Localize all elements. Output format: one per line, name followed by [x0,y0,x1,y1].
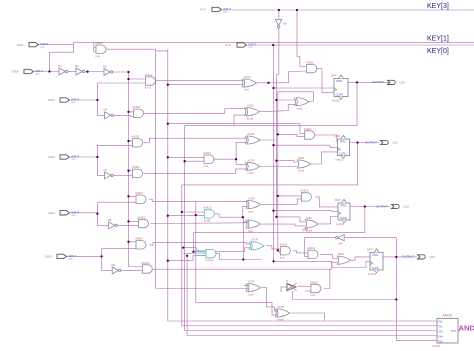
svg-text:IN4: IN4 [439,335,444,339]
wire pin4 down to inverter N7 [97,157,104,175]
wire T168 line y124 to AND G6 input a [168,124,305,134]
wire AND5 output stub [458,330,460,332]
node T168 tap GX0 [167,84,169,86]
wire G5 output to GX3 input b [144,169,249,174]
node GN1 output junction [242,216,244,218]
wire GX6 box stub [280,287,282,292]
XOR gate GXE [251,242,264,250]
flip-flop DFF2 [338,139,350,156]
svg-text:VCC: VCC [36,74,41,76]
OR gate GO4 [305,220,318,228]
node DFF3 feedback corner [192,250,194,252]
svg-text:OUTPUT: OUTPUT [402,255,414,259]
AND gate G11 [307,64,317,72]
wire clock trunk V1 from KEY[0] [273,45,275,261]
wire trunk T187 to AND5 input 4 [187,256,437,336]
svg-text:IN1: IN1 [439,320,444,324]
svg-text:IN2: IN2 [439,324,444,328]
wire G7 output to XOR GX4 input a [149,199,248,201]
svg-text:AND2: AND2 [132,135,140,139]
svg-text:IN3: IN3 [439,329,444,333]
AND gate G4 [133,139,143,147]
node GM output junction [235,158,237,160]
svg-text:SW2: SW2 [48,98,55,102]
svg-text:CLRN: CLRN [339,151,346,155]
AND gate G5 [133,169,143,177]
svg-text:PRN: PRN [336,79,342,83]
svg-text:inst2: inst2 [297,106,304,110]
AND gate G6 [305,131,315,139]
AND5 block [432,314,474,348]
svg-text:INPUT: INPUT [68,254,76,258]
svg-text:inst: inst [204,164,209,168]
wire to GXE input b [194,248,251,252]
AND gate GA3 [301,193,311,201]
svg-text:AND2: AND2 [203,151,211,155]
AND gate GA2 [308,250,318,258]
svg-text:PRN: PRN [340,139,346,143]
node V1 tap DFF2 clk [272,144,274,146]
node V3 tap GA3 [277,195,279,197]
svg-text:AND2: AND2 [279,243,287,247]
svg-text:INPUT: INPUT [71,155,79,159]
wire T184 to AND GM input b [185,160,204,162]
wire DFF4 Q to output pin [383,256,417,258]
node T128 tap G7 [127,195,129,197]
flip-flop DFF3 [338,203,350,220]
svg-text:N6: N6 [111,263,115,267]
wire GX5 output to GO4 input b [261,224,305,226]
svg-text:INPUT: INPUT [71,98,79,102]
svg-text:INPUT: INPUT [35,69,43,73]
svg-text:CLRN: CLRN [336,92,343,96]
wire into GX6 [281,286,287,288]
svg-text:XOR: XOR [244,75,251,79]
svg-text:VCC: VCC [72,159,77,161]
inverter on KEY3 trunk [275,20,281,26]
svg-text:LD1: LD1 [393,141,399,145]
wire V1 to DFF1 D input [274,87,335,89]
wire GX1 output to GO1 input b [258,104,296,111]
wire GO6 output join AND5 line [291,313,325,321]
wire G3 output to XOR GX1 input a [144,109,247,114]
svg-text:inst3: inst3 [298,169,305,173]
svg-text:AND2: AND2 [133,105,141,109]
wire V1 to DFF2 clock [274,145,338,148]
XOR gate GX3 [247,162,260,170]
svg-text:inst: inst [310,293,315,297]
XOR gate GX4 [248,201,261,209]
wire GN1 output hook [213,214,243,217]
svg-text:DFF: DFF [367,248,373,252]
node T168 tap y124 line [167,123,169,125]
wire T128 stub to G7 [129,195,137,197]
node T128 tap G4 [127,140,129,142]
OR gate GO6 [277,309,290,317]
wire V3 to AND G6 input b [278,134,305,136]
wire V2 to OR GO2 input a [276,161,297,162]
wire N7 output to G5 input b [112,174,133,176]
svg-text:inst7: inst7 [248,292,255,296]
wire V2 to OR GO4 input a [276,217,305,222]
wire pin6 up to G9 input b [102,247,137,256]
AND3 gate GN2 [206,249,216,257]
wire DFF3 feedback down [193,232,195,251]
svg-text:KY3: KY3 [200,8,206,12]
wire DFF3 Q feedback line y232 [194,207,365,233]
svg-text:OUT: OUT [451,329,457,333]
svg-text:N1: N1 [58,64,62,68]
svg-text:OUTPUT: OUTPUT [365,140,377,144]
svg-text:SW1: SW1 [17,43,24,47]
wire DFF2 Q feedback line y185 [182,143,358,185]
AND gate GM [204,155,214,163]
svg-text:IN5: IN5 [439,339,444,343]
svg-text:inst6: inst6 [247,171,254,175]
wire GN1 out down to y259 line [243,217,262,259]
svg-text:inst: inst [244,88,249,92]
svg-text:SW0: SW0 [12,70,19,74]
AND gate G3 [134,109,144,117]
wire GA2 output to GO3 input a [320,254,337,258]
XOR gate GX5 [248,220,261,228]
wire T128 stub to G9 [129,241,137,243]
node pin6 junction [100,255,102,257]
node T168 tap GN2 [167,260,169,262]
inverter N4 [105,112,111,119]
svg-text:N: N [286,279,288,283]
wire N1 to N2 [67,71,76,73]
OR gate GO5 [248,284,261,292]
node V2 tap GO1 [275,99,277,101]
wire trunk T184 to AND5 input 3 [185,126,437,331]
wire N2 to N3 [85,71,104,73]
wire N4 output to G3 input b [112,114,133,117]
wire N5 output to G8 input b [118,224,139,226]
node DFF2 Q junction [356,141,358,143]
wire KEY[3] into down inverter [278,10,280,20]
node pin5 junction [96,212,98,214]
svg-text:inst15: inst15 [432,344,440,348]
wire GO3 output to DFF4 D [350,257,370,260]
svg-text:inst13: inst13 [336,222,344,226]
node KEY3 branch junction [296,9,298,11]
svg-text:LD3: LD3 [430,255,436,259]
svg-text:N9: N9 [283,22,287,26]
svg-text:AND2: AND2 [306,60,314,64]
AND3 GN2 input lines [196,251,206,256]
svg-text:PRN: PRN [340,203,346,207]
wire riser to GX1 input b [234,115,246,126]
wire GN2 output hook [215,254,243,260]
wire pin5 [69,212,97,214]
svg-text:OR2: OR2 [306,216,313,220]
svg-text:VCC: VCC [72,102,77,104]
node DFF4 Q junction [395,256,397,258]
wire GX4 output to GA3 input b [261,199,301,205]
svg-text:VCC: VCC [249,47,254,49]
wire G7 trunk T195 down to GO6 input b [196,201,278,315]
XOR gate GX2 [247,136,260,144]
node T128 tap G8 [127,220,129,222]
node T183 tap GN2 [182,246,184,248]
AND gate G7 [136,195,146,203]
svg-text:AND2: AND2 [300,189,308,193]
node T183 tap GN1 [181,211,183,213]
node V1 tap DFF3 clk [272,210,274,212]
svg-text:XOR: XOR [247,158,254,162]
wire V3 to AND GA3 input a [278,195,302,197]
svg-text:AND2: AND2 [135,237,143,241]
AND gate G1 [96,45,106,53]
node V2 tap GO4 [275,216,277,218]
wire inverted trunk T128 down to G10 input a [129,72,143,267]
svg-text:XOR: XOR [248,197,255,201]
feedback inverter N8 [338,235,344,241]
svg-text:inst12: inst12 [206,258,214,262]
AND gate GA1 [280,247,290,255]
svg-text:inst: inst [280,255,285,259]
node T184 tap GM [183,160,185,162]
svg-text:inst: inst [248,229,253,233]
wire T168 to XOR GX0 input b [168,84,244,86]
AND gate G8 [139,219,149,227]
node T187 top junction [186,255,188,257]
AND gate G10 [142,265,152,273]
svg-text:N7: N7 [104,168,108,172]
wire pin5 up to G7 input b [97,202,137,213]
svg-text:AND2: AND2 [141,261,149,265]
svg-text:inst8: inst8 [277,318,284,322]
svg-text:inst10: inst10 [332,99,340,103]
wire DFF4 Q feedback to inverter N8 [345,237,396,239]
node T128 tap G2 [127,78,129,80]
wire GA2b input b stub [305,290,311,292]
inverter N3 [104,69,110,76]
inverter N2 [76,68,82,75]
wire N3 output to trunk T128 [112,71,129,73]
wire T128 stub to G8 [129,220,139,222]
wire G2 output to XOR GX0 input a [154,80,244,82]
wire pin4 [69,156,97,158]
node T168 tap GN1 [167,215,169,217]
svg-text:AND2: AND2 [132,165,140,169]
node pin4 junction [96,156,98,158]
wire T128 stub to G3 [129,111,134,113]
svg-text:KY0: KY0 [225,43,231,47]
svg-text:INPUT: INPUT [71,210,79,214]
wire pin3 down to inverter N4 [97,100,104,115]
flip-flop DFF1 [334,79,348,97]
inverter N7 [105,172,111,179]
wire pin6 [66,255,102,257]
svg-text:OR2: OR2 [338,252,345,256]
node V3 tap GA1 [277,249,279,251]
svg-text:CLRN: CLRN [340,216,347,220]
wire GO5 input a stub [244,285,249,287]
svg-text:SW4: SW4 [48,211,55,215]
wire GA2b output up to y269 line [324,269,330,288]
XOR gate GX0 [244,79,257,87]
inverter N6 [112,267,118,274]
node GX0 output junction [267,82,269,84]
svg-text:KEY[1]: KEY[1] [427,36,449,43]
svg-text:SW5: SW5 [45,255,52,259]
svg-text:LD2: LD2 [404,205,410,209]
node V1 tap DFF4 clk [272,260,274,262]
wire GX0 output to AND G11 input b [257,71,307,83]
node inverter chain junction [86,71,88,73]
wire trunk T168 to AND5 input 1 [168,49,437,321]
wire G1 output right [107,49,168,51]
wire N8 output to GA2 input b [305,238,337,257]
svg-text:KEY[0]: KEY[0] [427,48,449,55]
svg-text:N3: N3 [103,64,107,68]
wire T128 stub to G5 [129,170,133,172]
AND gate GA2b [311,284,321,292]
svg-text:LD0: LD0 [400,81,406,85]
svg-text:AND2: AND2 [138,215,146,219]
node DFF1 Q junction [356,81,358,83]
svg-text:DFF: DFF [335,134,341,138]
wire pin2 up to KEY1 riser [50,45,74,72]
wire GM out down to GX3 input a [236,159,248,164]
node GN1 down junction [242,258,244,260]
wire GO2 output to DFF2 enable [311,152,338,164]
svg-text:inst: inst [248,209,253,213]
svg-text:AND2: AND2 [307,246,315,250]
wire GO1 output feedback trunk V3 [278,92,314,251]
wire GO5 output down to GO6 input a [262,288,278,311]
svg-text:INPUT: INPUT [223,7,231,11]
wire GN1 out up to GX4 input b [243,206,248,217]
wire DFF1 Q to output pin [348,81,390,83]
wire GA3 output to DFF3 D [315,197,338,207]
svg-text:XOR: XOR [251,238,258,242]
svg-text:OUTPUT: OUTPUT [372,80,384,84]
svg-text:AND2: AND2 [304,127,312,131]
svg-text:AND2: AND2 [135,191,143,195]
node T168 tap GM [167,156,169,158]
svg-text:VCC: VCC [72,215,77,217]
wire into GN2 upper input [196,248,206,251]
wire GXE output to GA1 input a [266,246,280,249]
svg-text:SW3: SW3 [48,155,55,159]
svg-text:XOR: XOR [247,104,254,108]
node V1 tap DFF1 D [272,87,274,89]
wire DFF1 Q feedback line y126 [185,82,357,125]
svg-text:AND2: AND2 [203,206,211,210]
svg-text:AND5OU: AND5OU [459,324,474,333]
wire G11 output to DFF1 clock [316,69,334,93]
wire V2 to OR GO1 input a [276,99,296,101]
svg-text:DFF: DFF [331,74,337,78]
svg-text:PRN: PRN [372,253,378,257]
wire N6 output to G10 input b [121,269,142,271]
wire G8 output to XOR GX5 input a [150,222,248,225]
svg-text:inst11: inst11 [336,158,344,162]
small inverter GX6 with cross [286,279,297,291]
flip-flop DFF4 [370,253,383,271]
wire KEY[3] bus line [222,9,474,11]
node N3 output junction [127,71,129,73]
wire V1 to DFF3 clock [274,210,339,213]
svg-text:inst9: inst9 [204,219,211,223]
wire pin3 [69,99,97,101]
wire pin5 down to inverter N5 [97,214,108,226]
inverter N5 [109,222,115,229]
wire G6 output to DFF2 D [311,135,337,142]
wire pin4 up to G4 input b [97,146,132,157]
wire KEY[0] bus line [247,44,474,46]
svg-text:OUTPUT: OUTPUT [376,204,388,208]
wire inverted KEY3 trunk V2 [276,28,279,217]
svg-text:N8: N8 [339,242,343,246]
svg-text:XOR: XOR [277,305,284,309]
wire GX3 output to OR GO2 input b [261,166,298,168]
svg-text:XOR: XOR [247,132,254,136]
wire pin6 down to inverter N6 [102,256,113,270]
node DFF3 Q junction [364,205,366,207]
wire riser to GO3 input b [332,262,338,269]
svg-text:inst: inst [96,54,101,58]
node pin3 junction [96,99,98,101]
wire GO4 output to DFF3 enable [319,217,338,224]
wire stub to AND2 G1 input a [94,46,96,48]
XOR gate GX1 [246,108,259,116]
wire pin3 up to G2 input b [97,83,145,100]
wire GX6 net down to DFF4 trunk [292,291,396,300]
wire V3 to AND GA1 input b [278,250,281,252]
svg-text:inst4: inst4 [306,229,313,233]
NAND gate GN1 [204,210,214,218]
node T195 crossing [195,214,197,216]
wire T168 to AND3 GN2 lower input [168,256,206,261]
node DFF4 trunk junction [395,298,397,300]
svg-text:inst5: inst5 [247,116,254,120]
svg-text:N5: N5 [108,218,112,222]
node T128 tap G9 [127,241,129,243]
svg-text:inst1: inst1 [145,86,152,90]
wire DFF4 Q trunk to AND5 input 5 [396,238,437,341]
wire T168 to AND GM input a [168,156,204,158]
wire G1 branch down to OR GO5 input [156,51,249,289]
node T128 tap G3 [127,111,129,113]
wire stub to GX5 input a [243,221,247,223]
wire T168 to NAND GN1 input b [168,215,205,217]
wire G4 output to XOR GX2 input a [144,138,247,143]
node V2 tap GO2 [275,160,277,162]
wire V1 to DFF4 clock jog [274,261,371,267]
wire GM out up to GX2 input b [236,142,247,159]
svg-text:CLRN: CLRN [372,266,379,270]
AND gate G9 [136,241,146,249]
svg-text:VCC: VCC [41,47,46,49]
node T128 tap G5 [127,170,129,172]
svg-text:DFF: DFF [335,198,341,202]
OR gate GO3 [337,256,350,264]
svg-text:AND2: AND2 [310,280,318,284]
svg-text:AND2: AND2 [144,73,152,77]
wire KEY[3] branch to AND gate G11 input a [297,10,307,67]
svg-text:INPUT: INPUT [248,43,256,47]
OR gate GO2 [298,160,311,168]
inverter N1 [59,68,65,75]
wire GX2 output [260,139,276,141]
wire DFF3 Q to output pin [350,206,391,208]
svg-text:VCC: VCC [69,259,74,261]
wire T183 to NAND GN1 input a [182,211,205,213]
